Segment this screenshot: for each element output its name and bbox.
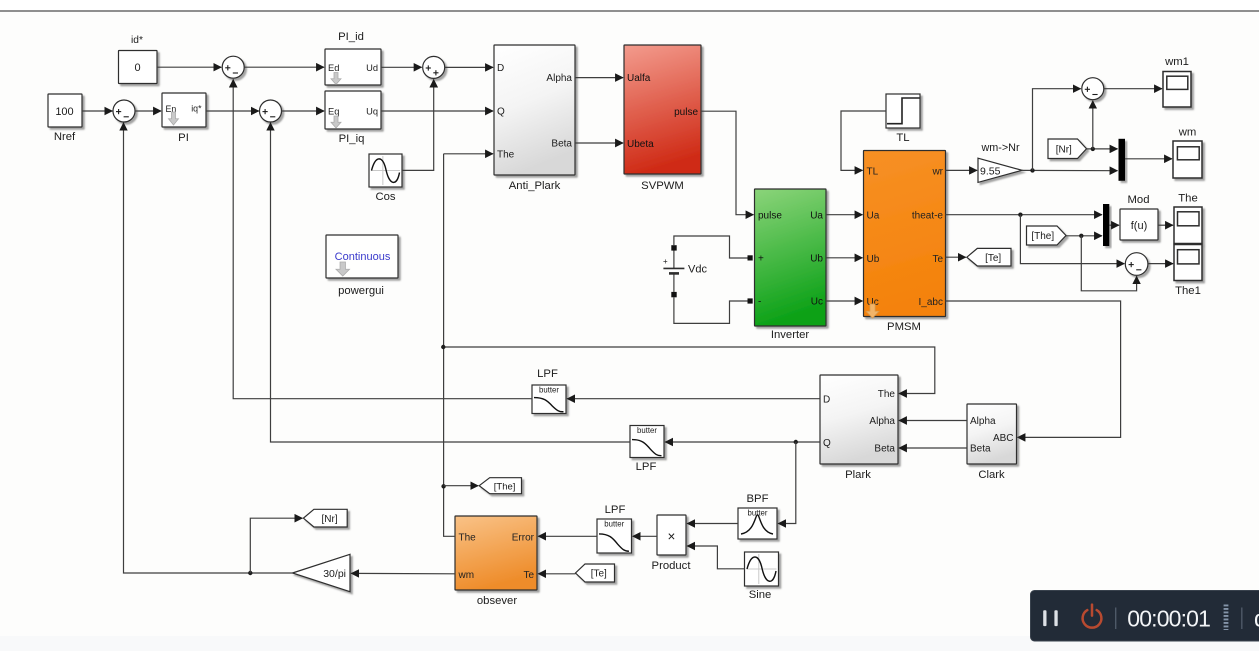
wire The tag to mux M2 [1066,235,1102,237]
wire Plark Q to LPF2 [665,441,820,443]
Plark subsystem [820,375,898,464]
from tag The [1027,226,1067,245]
wire Clark Alpha to Plark Alpha [899,420,967,422]
svg-text:Alpha: Alpha [970,416,996,427]
Product block [657,515,686,555]
svg-text:Beta: Beta [874,443,895,454]
svg-text:Sine: Sine [749,589,772,601]
svg-text:Cos: Cos [375,191,395,203]
divider 1 [1115,608,1117,630]
svg-text:Continuous: Continuous [335,251,391,263]
svg-text:Eq: Eq [328,107,339,117]
wire S4 to Anti_Plark D [445,66,493,68]
wire PI_id Ud to S4 [381,66,422,68]
filter LPF1 butter [532,385,566,414]
mux M1 [1119,139,1126,181]
svg-text:Product: Product [652,560,692,572]
svg-text:-: - [758,297,761,308]
svg-text:butter: butter [748,509,768,518]
sum junction S6 [1125,253,1148,276]
wire Vdc plus to Inverter + [674,236,748,258]
svg-text:Inverter: Inverter [771,329,810,341]
svg-text:The: The [878,389,896,400]
goto tag Nr bottom [303,509,347,527]
wire Inverter Uc to PMSM [826,300,863,302]
svg-text:PI_iq: PI_iq [339,133,365,145]
wire Inverter Ua to PMSM [826,214,863,216]
svg-text:PI: PI [178,132,189,144]
svg-text:0: 0 [134,62,140,74]
svg-text:×: × [668,529,676,544]
svg-text:wr: wr [931,166,943,177]
frame slider [1224,605,1229,631]
wire The junction down to S6 bottom [1081,236,1136,291]
wire Alpha to Ualfa [575,77,623,79]
svg-text:powergui: powergui [338,285,384,297]
svg-text:pulse: pulse [758,210,782,221]
constant Nref value 100 [48,94,82,127]
svg-text:Mod: Mod [1128,194,1150,206]
svg-text:d: d [1254,605,1259,631]
mux M2 [1103,204,1109,246]
svg-text:Beta: Beta [970,443,991,454]
sum junction S2 [260,100,282,122]
wire Nr junction up to S5 [1092,101,1094,149]
svg-text:Uc: Uc [811,297,823,308]
wire PMSM Te to goto Te [946,256,966,258]
svg-text:wm->Nr: wm->Nr [980,142,1019,154]
svg-text:[Nr]: [Nr] [321,514,337,525]
svg-text:SVPWM: SVPWM [641,180,684,192]
wire junction up to S5 [1033,89,1081,171]
wire obsever The trunk vertical [444,154,455,537]
svg-text:Ub: Ub [810,253,823,264]
svg-text:obsever: obsever [477,595,517,607]
svg-text:wm: wm [458,570,475,581]
wire 30/pi out feedback to S1 [124,123,293,573]
svg-text:Ubeta: Ubeta [627,139,654,150]
svg-text:D: D [497,63,504,74]
svg-text:Nref: Nref [54,131,76,143]
svg-text:butter: butter [604,520,624,529]
wire Product to LPF3 [633,535,657,537]
svg-text:LPF: LPF [605,504,626,516]
sum junction S3 [222,56,244,78]
scope wm1 [1163,72,1191,108]
wire S6 to scope The1 [1148,263,1173,265]
wire Clark Beta to Plark Beta [899,447,967,449]
powergui block [326,235,398,278]
svg-text:butter: butter [539,386,559,395]
svg-text:[The]: [The] [1031,231,1054,242]
svg-text:D: D [823,394,830,405]
wire The input to Anti_Plark [444,153,493,155]
wire S3 to PI_id [244,66,324,68]
wire TL to PMSM TL input [841,111,886,170]
svg-text:id*: id* [131,35,143,46]
svg-text:Error: Error [512,532,535,543]
TL step source block [886,94,920,128]
svg-text:Ualfa: Ualfa [627,73,651,84]
DC source Vdc [663,245,684,297]
toolbar bottom edge line [0,0,1259,10]
PI block [162,93,206,127]
Sine source block [745,552,779,586]
PI_id block [325,49,381,85]
svg-text:LPF: LPF [636,461,657,473]
power stop icon [1083,605,1102,628]
svg-text:Ua: Ua [810,210,823,221]
svg-text:30/pi: 30/pi [323,568,346,580]
wire obsever wm to gain 30/pi [351,572,455,574]
svg-text:BPF: BPF [747,493,769,505]
filter LPF3 butter [597,519,632,553]
Anti_Plark subsystem [494,45,575,175]
wire PI_iq Uq to Anti_Plark Q [381,110,493,112]
svg-text:The: The [1178,193,1197,205]
PI_iq block [325,91,381,129]
wire LPF1 to S3 [233,80,532,399]
svg-text:Q: Q [823,438,831,449]
wire The distribution to Plark The [443,347,935,394]
goto tag The bottom [479,478,521,494]
svg-text:wm: wm [1178,127,1197,139]
svg-text:butter: butter [637,426,657,435]
svg-text:Vdc: Vdc [688,264,707,276]
constant id* value 0 [119,51,158,84]
svg-text:9.55: 9.55 [980,165,1001,177]
svg-text:Q: Q [497,107,505,118]
Mod function block f(u) [1120,209,1158,240]
svg-text:Te: Te [932,254,943,265]
goto tag Te [967,248,1011,266]
from tag Nr [1048,139,1087,159]
wire junction up to goto Nr [250,518,302,573]
svg-text:+: + [663,257,668,266]
svg-text:Plark: Plark [845,469,871,481]
svg-text:Alpha: Alpha [869,416,895,427]
scope The1 [1174,245,1202,281]
svg-text:theat-e: theat-e [912,211,944,222]
wire mux M1 to scope wm [1125,158,1172,160]
wire Te tag to obsever Te [538,573,575,575]
svg-text:f(u): f(u) [1131,220,1148,232]
svg-text:Ub: Ub [867,254,880,265]
wire Q junction down to BPF [778,442,796,524]
window chrome remnant [1,1,6,5]
wire Nr tag to mux M1 [1087,148,1118,150]
wire Vdc minus to Inverter - [674,297,748,323]
svg-text:Beta: Beta [551,139,572,150]
wire mux M2 to f(u) [1109,224,1119,226]
svg-text:The: The [497,150,515,161]
wire LPF2 to S2 [271,123,631,442]
svg-text:100: 100 [55,106,73,118]
pause icon [1043,610,1046,626]
wire PMSM wr to gain [946,169,978,171]
wire junction to goto The [444,485,479,487]
wire gain out junction [1022,169,1118,171]
svg-text:iq*: iq* [191,104,202,114]
filter LPF2 butter [630,426,664,458]
svg-text:Ed: Ed [328,63,339,73]
wire f(u) to scope The [1158,224,1173,226]
wire BPF to Product [687,523,738,525]
svg-text:LPF: LPF [537,368,558,380]
scope The [1174,207,1202,244]
wire Sine to Product [687,546,744,569]
svg-text:[Te]: [Te] [985,253,1001,264]
svg-text:Te: Te [523,570,534,581]
svg-text:wm1: wm1 [1164,56,1189,68]
obsever subsystem [455,516,537,590]
wire Cos to S4 [402,80,434,171]
wire S2 to PI_iq [281,110,324,112]
wire theat-e junction down to S6 [1020,215,1124,264]
svg-text:[The]: [The] [494,481,516,492]
svg-text:PMSM: PMSM [887,321,921,333]
svg-text:ABC: ABC [993,433,1014,444]
svg-text:TL: TL [867,166,879,177]
svg-text:I_abc: I_abc [919,297,943,308]
svg-text:Uq: Uq [366,107,378,117]
PMSM block [864,151,946,317]
recorder control bar [1031,591,1259,642]
wire PMSM I_abc to Clark ABC [946,301,1121,437]
sum junction S4 [423,56,445,78]
wire S1 to PI [135,110,161,112]
sum junction S5 [1082,78,1104,100]
wire Plark D to LPF1 [567,398,820,400]
svg-text:Alpha: Alpha [546,73,572,84]
wire Inverter Ub to PMSM [826,257,863,259]
svg-text:pulse: pulse [674,107,698,118]
svg-text:TL: TL [896,132,909,144]
svg-text:Ua: Ua [867,211,880,222]
wire LPF3 to obsever Error [538,535,597,537]
Clark subsystem [967,404,1017,464]
svg-text:[Te]: [Te] [591,569,607,580]
sum junction S1 [113,100,135,122]
gain 30/pi [293,554,351,591]
svg-text:Anti_Plark: Anti_Plark [509,180,561,192]
wire S5 to scope wm1 [1104,88,1162,90]
wire Beta to Ubeta [575,142,623,144]
wire Nref to S1 [82,110,112,112]
wire PMSM theat-e to mux M2 [946,214,1103,216]
svg-text:Ud: Ud [366,63,378,73]
filter BPF butter [738,508,777,539]
svg-text:PI_id: PI_id [338,31,364,43]
svg-text:The1: The1 [1175,285,1201,297]
wire const0 to S3 [157,66,221,68]
svg-text:The: The [459,532,477,543]
svg-text:+: + [758,253,764,264]
scope wm [1173,141,1202,178]
divider 2 [1241,608,1243,630]
bottom strip [0,636,1259,651]
Cos source block [369,154,402,187]
svg-text:00:00:01: 00:00:01 [1127,605,1210,631]
from tag Te bottom [576,564,615,582]
svg-text:[Nr]: [Nr] [1056,144,1072,155]
SVPWM subsystem [624,45,701,174]
svg-text:Clark: Clark [978,469,1005,481]
gain wm->Nr 9.55 [978,158,1022,182]
wire SVPWM pulse to Inverter [701,111,754,215]
Inverter subsystem [755,189,827,326]
wire PI iq* to S2 [206,110,259,112]
